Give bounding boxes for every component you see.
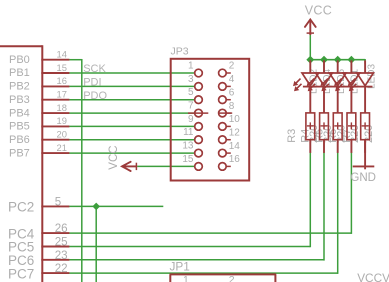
- svg-text:PB1: PB1: [9, 67, 30, 79]
- svg-text:25: 25: [55, 236, 68, 249]
- svg-text:12: 12: [229, 127, 241, 138]
- svg-text:2: 2: [229, 274, 235, 282]
- svg-text:21: 21: [57, 142, 67, 153]
- svg-text:5: 5: [55, 195, 61, 208]
- svg-text:PC7: PC7: [8, 266, 34, 281]
- svg-text:26: 26: [55, 222, 68, 235]
- svg-text:PB5: PB5: [9, 121, 30, 133]
- svg-text:2: 2: [229, 61, 235, 72]
- svg-text:PB6: PB6: [9, 134, 30, 146]
- svg-text:6: 6: [229, 87, 235, 98]
- svg-text:PC2: PC2: [8, 200, 34, 215]
- svg-text:5: 5: [188, 87, 194, 98]
- svg-text:9: 9: [188, 114, 194, 125]
- svg-text:GND: GND: [350, 172, 376, 184]
- svg-text:VCC: VCC: [108, 145, 120, 169]
- svg-text:VCC: VCC: [305, 4, 332, 18]
- svg-text:PB3: PB3: [9, 94, 30, 106]
- svg-text:VCCVCC: VCCVCC: [357, 271, 389, 282]
- svg-text:8: 8: [229, 101, 235, 112]
- svg-text:22: 22: [55, 262, 68, 275]
- svg-text:PB7: PB7: [9, 147, 30, 159]
- svg-text:PDO: PDO: [83, 90, 107, 102]
- svg-text:PDI: PDI: [83, 77, 101, 89]
- svg-text:SCK: SCK: [83, 63, 106, 75]
- svg-text:14: 14: [229, 141, 241, 152]
- svg-text:4: 4: [229, 74, 235, 85]
- svg-text:15: 15: [57, 62, 67, 73]
- svg-text:13: 13: [182, 141, 194, 152]
- svg-text:15: 15: [182, 154, 194, 165]
- svg-text:23: 23: [55, 249, 68, 262]
- svg-text:JP1: JP1: [170, 259, 190, 273]
- svg-text:R3: R3: [286, 129, 298, 143]
- svg-text:14: 14: [57, 49, 67, 60]
- svg-text:11: 11: [183, 127, 194, 138]
- svg-text:JP3: JP3: [171, 46, 189, 58]
- svg-text:16: 16: [229, 154, 241, 165]
- svg-text:19: 19: [57, 115, 67, 126]
- svg-text:7: 7: [188, 101, 194, 112]
- svg-text:3: 3: [188, 74, 194, 85]
- svg-text:1: 1: [188, 61, 194, 72]
- svg-text:PB0: PB0: [9, 54, 30, 66]
- svg-text:20: 20: [57, 129, 67, 140]
- svg-text:10: 10: [229, 114, 241, 125]
- svg-text:1: 1: [183, 274, 189, 282]
- svg-text:17: 17: [57, 89, 67, 100]
- svg-text:18: 18: [57, 102, 67, 113]
- svg-text:PB2: PB2: [9, 81, 30, 93]
- svg-text:16: 16: [57, 75, 67, 86]
- svg-text:PB4: PB4: [9, 107, 30, 119]
